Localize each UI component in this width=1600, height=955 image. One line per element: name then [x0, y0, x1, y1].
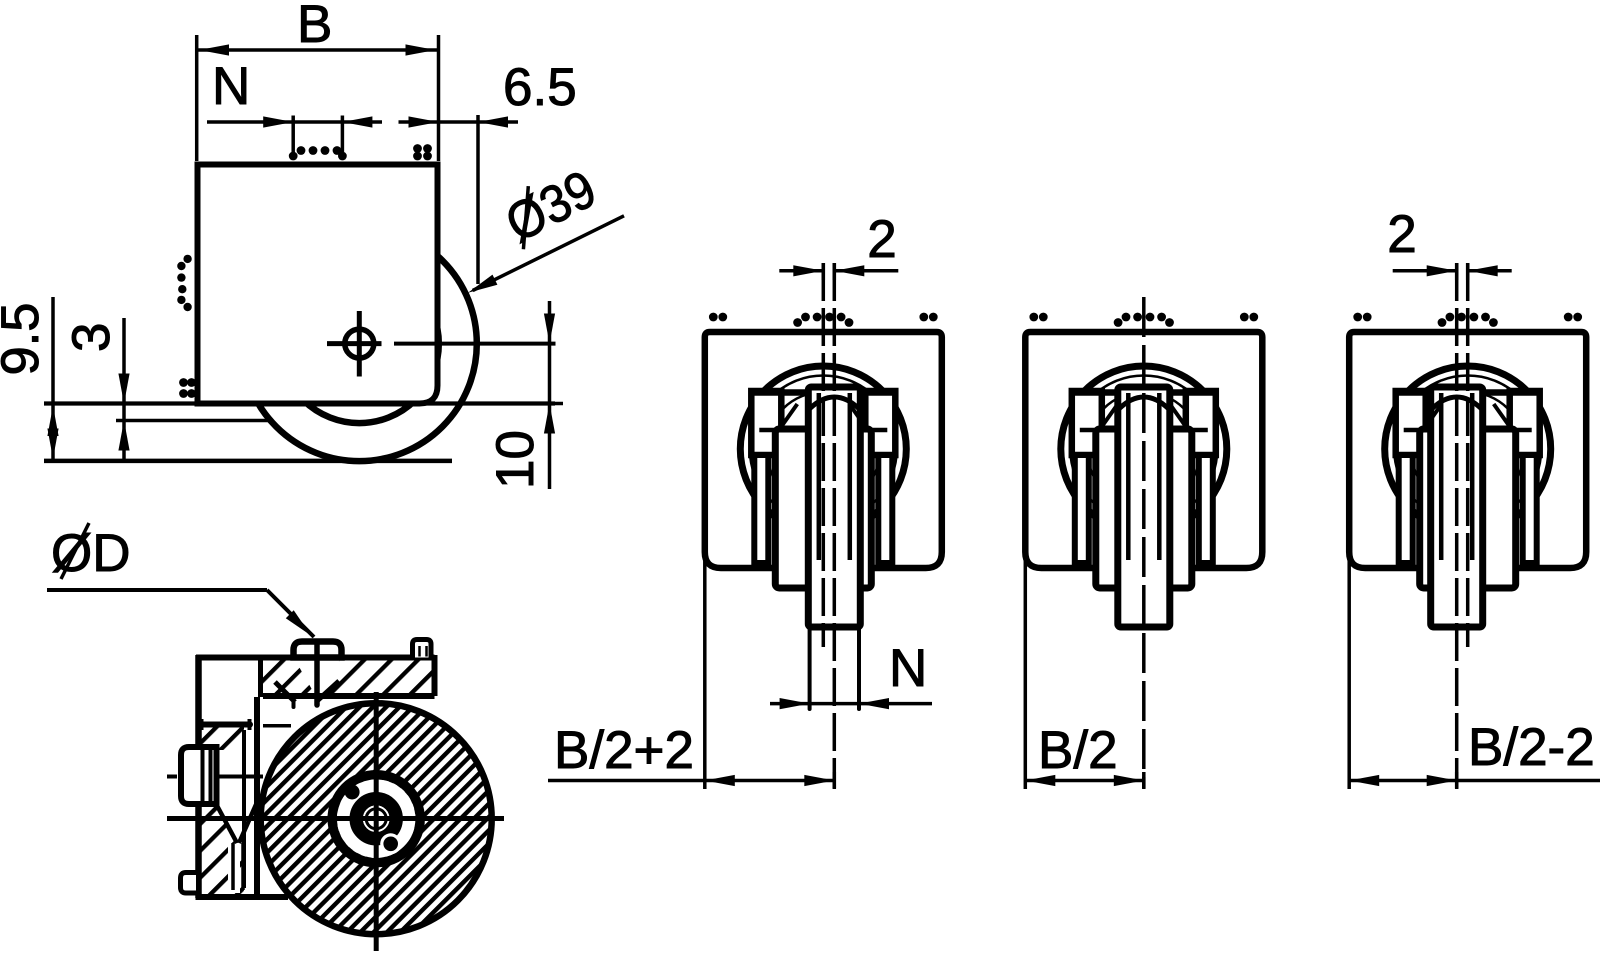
svg-text:B: B [297, 0, 332, 54]
svg-text:N: N [889, 639, 927, 698]
svg-text:N: N [212, 57, 250, 116]
svg-text:9.5: 9.5 [0, 303, 50, 376]
svg-text:2: 2 [867, 210, 896, 269]
svg-text:B/2+2: B/2+2 [554, 721, 694, 780]
svg-text:2: 2 [1387, 205, 1416, 264]
svg-text:3: 3 [62, 323, 121, 352]
svg-text:B/2-2: B/2-2 [1468, 718, 1595, 777]
svg-text:6.5: 6.5 [503, 58, 577, 117]
svg-text:B/2: B/2 [1038, 721, 1118, 780]
svg-text:10: 10 [486, 430, 545, 489]
